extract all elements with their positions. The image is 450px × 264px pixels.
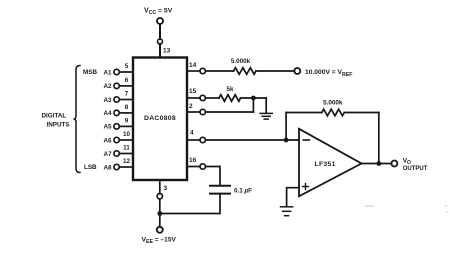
pin 15 wire xyxy=(187,97,200,99)
svg-text:6: 6 xyxy=(125,77,129,84)
input A6 pin 10 xyxy=(103,131,133,144)
pin 2 wire xyxy=(187,111,200,113)
svg-text:A6: A6 xyxy=(103,137,112,144)
resistor R2 5k xyxy=(219,95,241,102)
C1 value 0.1 uF xyxy=(234,187,252,194)
pin 15 label xyxy=(189,88,197,95)
junction dot node B xyxy=(251,96,256,101)
junction dot VEE node xyxy=(157,211,162,216)
node VO OUTPUT label xyxy=(403,158,428,173)
wire VCC to connector xyxy=(159,24,161,39)
capacitor C1 xyxy=(210,186,230,194)
output terminal xyxy=(391,161,397,167)
svg-text:A1: A1 xyxy=(103,69,112,76)
pin 4 connector xyxy=(200,137,205,142)
svg-text:A8: A8 xyxy=(103,164,112,171)
input A5 pin 9 xyxy=(103,117,133,130)
wire feedback left vertical xyxy=(285,113,287,141)
svg-text:11: 11 xyxy=(123,145,130,152)
wire feedback top right xyxy=(344,112,379,114)
svg-text:A2: A2 xyxy=(103,83,112,90)
pin 14 label xyxy=(189,62,197,69)
R1 value 5.000k xyxy=(231,58,251,65)
VEE terminal xyxy=(157,227,163,233)
svg-text:LF351: LF351 xyxy=(315,161,336,168)
svg-text:14: 14 xyxy=(189,62,197,69)
svg-text:5.000k: 5.000k xyxy=(323,100,343,107)
input A7 pin 11 xyxy=(103,145,133,158)
node VCC label xyxy=(144,8,173,17)
R2 value 5k xyxy=(226,86,234,93)
resistor R1 5.000k xyxy=(234,68,256,75)
svg-text:8: 8 xyxy=(125,104,129,111)
wire to ground 1 xyxy=(265,98,267,113)
pin 14 wire xyxy=(187,70,200,72)
wire capacitor to VEE rail xyxy=(160,195,220,214)
svg-text:5k: 5k xyxy=(226,86,234,93)
pin 16 label xyxy=(189,157,197,164)
svg-text:A5: A5 xyxy=(103,124,112,131)
svg-text:13: 13 xyxy=(163,48,171,55)
svg-text:7: 7 xyxy=(125,91,129,98)
pin 14 connector xyxy=(200,68,205,73)
resistor R3 5.000k feedback xyxy=(322,109,344,116)
svg-text:3: 3 xyxy=(164,185,168,192)
VREF terminal xyxy=(294,68,300,74)
connector on VCC wire xyxy=(158,39,163,44)
pin 3 connector xyxy=(157,194,162,199)
pin 2 label xyxy=(189,103,193,110)
pin 16 wire xyxy=(187,166,200,168)
brace digital inputs xyxy=(74,66,81,173)
wire feedback right vertical xyxy=(378,113,380,164)
svg-text:2: 2 xyxy=(189,103,193,110)
wire junction down to pin2 row xyxy=(252,98,254,112)
pin 13 label xyxy=(163,48,171,55)
wire connector to pin 13 xyxy=(159,44,161,57)
svg-text:OUTPUT: OUTPUT xyxy=(403,166,428,172)
junction dot feedback left xyxy=(284,138,289,143)
svg-text:9: 9 xyxy=(125,117,129,124)
node VEE label xyxy=(142,237,177,246)
svg-text:12: 12 xyxy=(123,158,131,165)
scan speck 2 xyxy=(445,206,448,207)
wire pin4 to op-amp inverting input xyxy=(205,139,299,141)
node VREF label xyxy=(305,69,352,78)
svg-text:DIGITAL: DIGITAL xyxy=(42,113,67,120)
ground G2 xyxy=(281,207,293,216)
wire R2 to junction xyxy=(241,97,267,99)
MSB label xyxy=(83,69,97,76)
wire pin16 to capacitor xyxy=(205,167,220,185)
input A8 pin 12 xyxy=(103,158,133,171)
U2 value label xyxy=(315,161,336,168)
svg-text:5: 5 xyxy=(125,63,129,70)
DIGITAL INPUTS label xyxy=(42,113,70,129)
op-amp U2 LF351 triangle xyxy=(299,129,362,197)
svg-text:DAC0808: DAC0808 xyxy=(144,115,176,122)
pin 3 label xyxy=(164,185,168,192)
U1 value label xyxy=(144,115,176,122)
pin 15 connector xyxy=(200,95,205,100)
pin 2 connector xyxy=(200,109,205,114)
ground G1 xyxy=(260,113,272,119)
wire R1 to VREF terminal xyxy=(256,70,294,72)
input A4 pin 8 xyxy=(103,104,133,117)
wire pin15 to R2 xyxy=(205,97,219,99)
svg-text:A7: A7 xyxy=(103,151,112,158)
svg-text:A3: A3 xyxy=(103,97,112,104)
input A1 pin 5 xyxy=(103,63,133,76)
junction dot output xyxy=(376,161,381,166)
svg-text:MSB: MSB xyxy=(83,69,97,76)
DAC0808 U1 box xyxy=(133,58,187,181)
input A2 pin 6 xyxy=(103,77,133,90)
wire connector to VEE junction xyxy=(159,199,161,227)
svg-text:10: 10 xyxy=(123,131,131,138)
non-inverting input sign xyxy=(303,184,309,190)
R3 value 5.000k xyxy=(323,100,343,107)
wire pin2 to junction xyxy=(205,111,253,113)
wire op-amp output xyxy=(362,163,392,165)
svg-text:15: 15 xyxy=(189,88,197,95)
scan speck 3 xyxy=(447,211,449,213)
LSB label xyxy=(84,164,97,171)
svg-text:5.000k: 5.000k xyxy=(231,58,251,65)
scan speck 1 xyxy=(365,206,374,207)
pin 4 label xyxy=(190,130,194,137)
pin 16 connector xyxy=(200,164,205,169)
svg-text:A4: A4 xyxy=(103,110,112,117)
svg-text:INPUTS: INPUTS xyxy=(47,122,70,129)
wire pin14 to R1 xyxy=(205,70,233,72)
pin 3 wire xyxy=(159,180,161,194)
svg-text:LSB: LSB xyxy=(84,164,97,171)
svg-text:0.1 µF: 0.1 µF xyxy=(234,187,252,194)
input A3 pin 7 xyxy=(103,91,133,104)
svg-text:4: 4 xyxy=(190,130,194,137)
svg-text:16: 16 xyxy=(189,157,197,164)
wire feedback top left xyxy=(286,112,322,114)
pin 4 wire xyxy=(187,139,200,141)
wire non-inverting input to ground xyxy=(287,188,299,206)
VCC terminal xyxy=(157,18,163,24)
inverting input sign xyxy=(303,139,309,141)
